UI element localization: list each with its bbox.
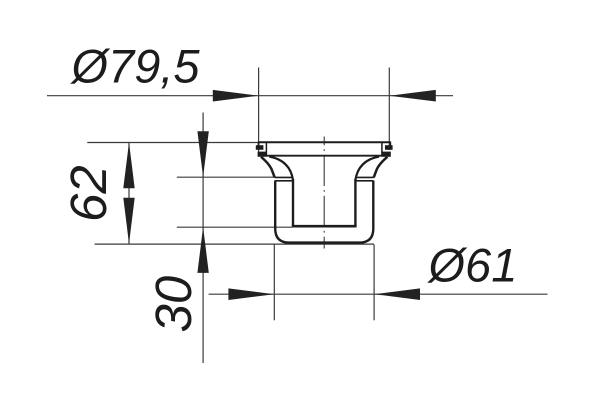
extension line Ø61 left bbox=[273, 245, 275, 321]
extension line Ø61 right bbox=[373, 245, 375, 321]
leader line 30 bbox=[202, 113, 204, 364]
inner tube wall left bbox=[292, 179, 294, 226]
svg-text:Ø61: Ø61 bbox=[427, 239, 518, 292]
outer shell bbox=[275, 181, 373, 243]
arrow 30 down bbox=[197, 131, 208, 177]
dimension line Ø79,5 bbox=[47, 95, 453, 97]
ledge right bottom bbox=[355, 180, 373, 182]
arrow Ø61 left bbox=[228, 288, 274, 300]
svg-text:30: 30 bbox=[145, 276, 202, 333]
rim right end bbox=[389, 142, 391, 148]
rim top edge bbox=[258, 141, 390, 143]
extension line 62 top bbox=[87, 142, 259, 144]
inner bottom bbox=[292, 225, 357, 228]
rim underside bbox=[267, 155, 382, 157]
dimension line Ø61 bbox=[209, 293, 548, 295]
extension line left (rim edge) bbox=[258, 68, 260, 153]
funnel inner wall right bbox=[355, 157, 379, 181]
arrow 62 down bbox=[123, 198, 134, 244]
funnel inner wall left bbox=[269, 157, 293, 181]
extension line 62 bottom bbox=[95, 243, 374, 245]
extension line right (rim edge) bbox=[388, 68, 390, 151]
rim notch right bbox=[381, 142, 383, 157]
ledge right top bbox=[355, 176, 373, 178]
arrow 62 up bbox=[123, 142, 134, 188]
svg-text:62: 62 bbox=[60, 165, 117, 222]
arrow Ø79,5 left bbox=[213, 90, 259, 102]
extension line 30 bottom bbox=[177, 226, 292, 228]
extension line 30 top bbox=[177, 176, 275, 178]
center line bbox=[323, 137, 325, 249]
dimension line 62 bbox=[128, 142, 130, 244]
funnel outer wall left bbox=[261, 157, 275, 178]
rim notch left bbox=[265, 142, 267, 157]
inner tube wall right bbox=[354, 179, 356, 226]
svg-text:Ø79,5: Ø79,5 bbox=[70, 40, 201, 93]
funnel outer wall right bbox=[374, 157, 388, 178]
clip right bbox=[385, 145, 393, 150]
arrow Ø79,5 right bbox=[389, 90, 435, 102]
arrow 30 up bbox=[197, 227, 208, 273]
rim left end bbox=[258, 142, 260, 148]
arrow Ø61 right bbox=[374, 288, 420, 300]
ledge left top bbox=[275, 176, 293, 178]
clip left bbox=[256, 145, 264, 150]
ledge left bottom bbox=[275, 180, 293, 182]
